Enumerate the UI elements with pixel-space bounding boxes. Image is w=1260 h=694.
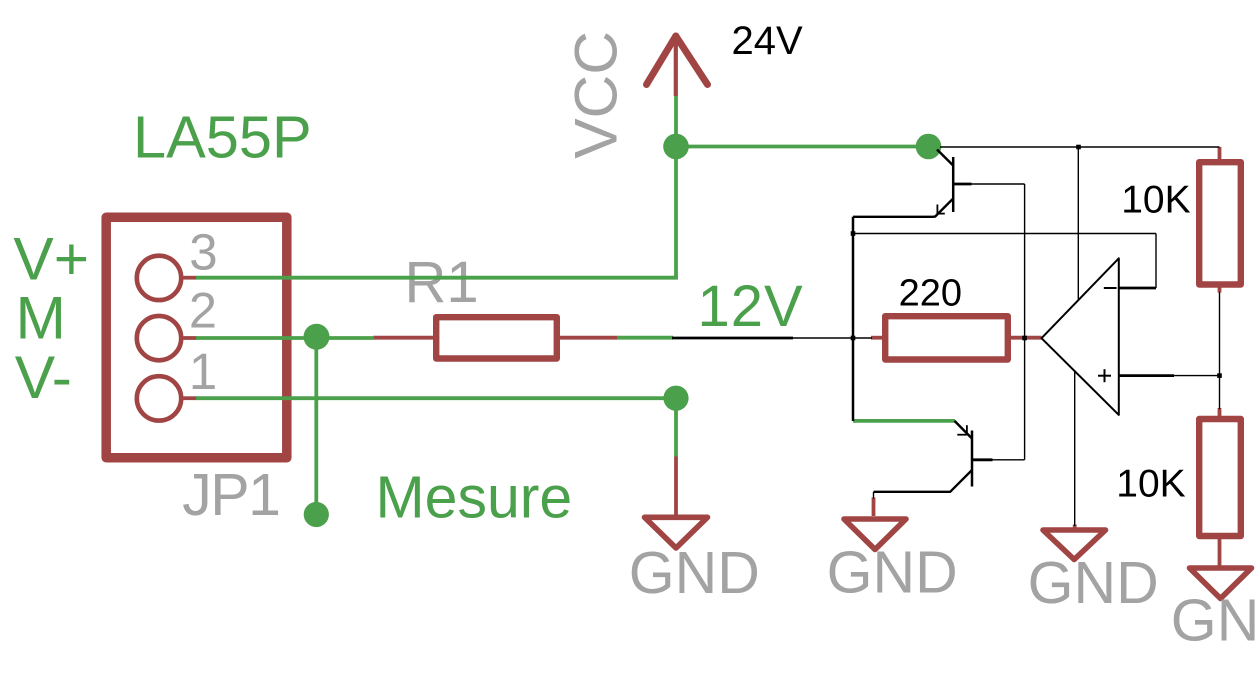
svg-text:Mesure: Mesure bbox=[376, 465, 573, 531]
svg-text:1: 1 bbox=[189, 343, 217, 400]
svg-text:GND: GND bbox=[1028, 550, 1159, 616]
svg-text:V-: V- bbox=[15, 343, 72, 411]
svg-text:24V: 24V bbox=[732, 19, 803, 63]
svg-text:M: M bbox=[16, 284, 66, 352]
svg-text:12V: 12V bbox=[698, 274, 804, 339]
svg-text:GND: GND bbox=[1171, 588, 1260, 654]
svg-text:10K: 10K bbox=[1121, 178, 1190, 221]
svg-text:JP1: JP1 bbox=[182, 462, 279, 528]
svg-text:R1: R1 bbox=[405, 250, 479, 315]
svg-text:2: 2 bbox=[189, 282, 217, 339]
svg-text:3: 3 bbox=[189, 224, 217, 281]
svg-text:10K: 10K bbox=[1116, 463, 1185, 506]
svg-text:220: 220 bbox=[899, 273, 962, 315]
svg-text:GND: GND bbox=[827, 540, 958, 606]
svg-text:LA55P: LA55P bbox=[133, 104, 312, 171]
svg-text:GND: GND bbox=[629, 540, 760, 606]
svg-text:V+: V+ bbox=[13, 224, 89, 292]
svg-text:VCC: VCC bbox=[561, 31, 629, 159]
